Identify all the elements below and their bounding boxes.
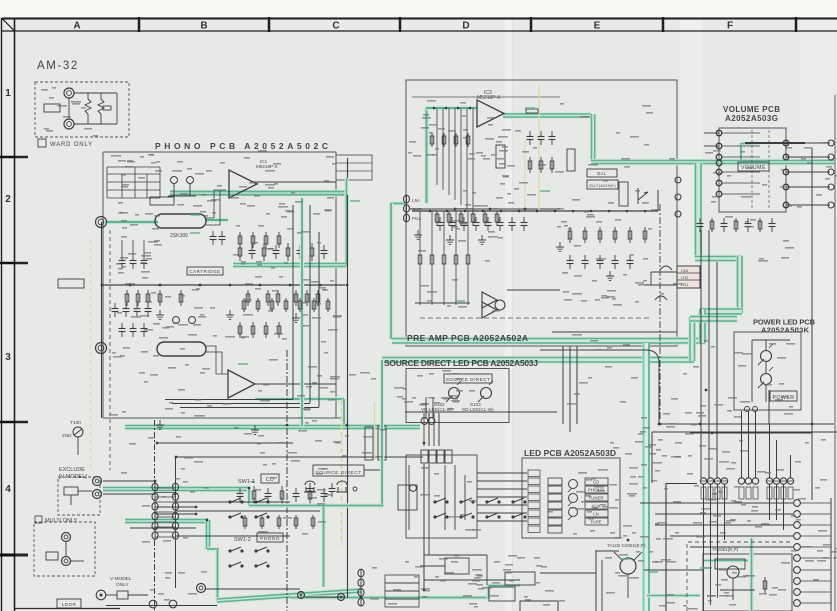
label BAL MUTE	[587, 169, 617, 177]
label C3310H	[150, 197, 174, 205]
wire green phono feedback	[233, 262, 346, 269]
wire preamp net 4	[460, 108, 462, 205]
connector right edge column	[794, 500, 801, 507]
wire green stair1 h1	[695, 255, 742, 263]
wire led feed 6	[477, 512, 527, 514]
wire green volume feed	[591, 159, 834, 166]
component header vbox 1	[365, 427, 373, 460]
volume pot symbols	[655, 266, 672, 300]
wire volume bold	[745, 142, 805, 144]
capacitor C32 phono	[267, 488, 269, 494]
wire bottom h2	[305, 596, 345, 598]
node switch pin	[353, 487, 357, 491]
wire edge conn 1	[640, 502, 793, 504]
resistor R61 preamp	[584, 227, 586, 243]
resistor row phono NF2	[238, 322, 281, 338]
resistor R25 phono	[247, 290, 249, 306]
resistor R29 phono	[306, 290, 308, 306]
capacitor pair phono mid	[210, 231, 226, 245]
border top outer line	[2, 18, 837, 20]
switch source glyph 1	[304, 481, 316, 492]
wire green phono R output	[255, 397, 344, 401]
wire CN201 left vert	[650, 272, 652, 285]
wire phono dashed edge	[109, 230, 111, 470]
switch SW2 row a	[433, 500, 436, 503]
wire preamp lower edge	[552, 331, 677, 333]
resistor R74 preamp	[747, 218, 749, 224]
label POWER LED PCB	[753, 318, 816, 335]
wire edge conn 3	[655, 524, 793, 526]
connector right edge jacks	[828, 140, 834, 146]
resistor R70 preamp	[699, 218, 701, 224]
wire preamp net 1	[442, 108, 444, 190]
column tick 6	[795, 17, 798, 32]
wire chain2 up	[175, 457, 177, 484]
component header vbox 2	[378, 426, 386, 460]
wire green sw drop 1	[247, 488, 251, 505]
wire green bottom bus 2	[290, 595, 362, 599]
connector CN preamp	[406, 195, 408, 222]
jack headphone ring	[64, 119, 74, 129]
wire edge conn 4	[670, 535, 793, 537]
component box P28	[117, 591, 128, 599]
wire bm2	[540, 572, 596, 574]
amp outer dashed box	[687, 542, 790, 611]
wire green amp area horiz	[703, 558, 748, 562]
wire amp drop 2	[710, 484, 712, 554]
wire green phono L input	[107, 220, 158, 225]
label LEDGR bottom	[57, 599, 81, 608]
wire exclude jack 1	[103, 480, 155, 482]
capacitor C61 preamp	[584, 255, 586, 261]
switch SW1-1 row a	[228, 500, 231, 503]
jack bottom 5	[169, 600, 177, 608]
wire green long vertical pair	[642, 343, 650, 611]
wire right horiz 1	[659, 423, 834, 425]
wire sw horiz 1	[157, 442, 293, 444]
wire opamp2 out	[255, 383, 336, 385]
svg-text:4: 4	[5, 484, 11, 495]
connector CN102 header	[421, 450, 428, 463]
muting caps	[307, 483, 336, 497]
resistor R54 preamp	[484, 211, 486, 225]
wire green bottom riser	[486, 585, 490, 598]
wire bundle v4	[438, 413, 440, 446]
resistor R28 phono	[295, 290, 297, 306]
wire exclude jack 2	[103, 493, 155, 495]
wire green phono L mid	[205, 218, 228, 223]
resistor R42 phono	[278, 515, 280, 529]
label input level box	[58, 279, 84, 288]
wire green volume jog top	[741, 141, 758, 145]
wire green preamp out	[503, 112, 591, 119]
jack exclude 2	[93, 490, 102, 499]
wire right elbow	[540, 350, 659, 424]
LED D104 power	[761, 351, 772, 362]
capacitor group phono R left	[119, 323, 148, 337]
LED PCB input header	[548, 478, 562, 533]
phono table header	[107, 167, 160, 174]
wire bundle down 2	[428, 464, 430, 555]
wire yellow preamp 2	[524, 140, 526, 210]
LED D103 source direct	[481, 388, 492, 399]
wire phono jack2 down	[101, 348, 103, 418]
jack bottom 2	[298, 592, 305, 599]
wire green stair2 bend	[690, 315, 737, 323]
wire right horiz 2	[690, 432, 812, 434]
wire horiz y432	[652, 431, 837, 433]
transistor pair Q1 (2SK389)	[155, 214, 206, 228]
jack multi 2	[62, 557, 71, 566]
resistor R50 preamp	[436, 211, 438, 225]
resistor group preamp left	[430, 133, 470, 147]
wire green phono right vertical	[344, 193, 348, 266]
wire green sw drop 2	[205, 520, 212, 549]
wire green drop x323	[321, 506, 325, 587]
resistor R901	[85, 99, 91, 114]
wire led feed 3	[477, 488, 527, 490]
wire green stair2 h	[382, 356, 694, 364]
resistor R65 preamp	[644, 227, 646, 243]
resistor R73 preamp	[735, 218, 737, 232]
wire bottom black	[106, 605, 217, 607]
label WARD ONLY	[38, 139, 93, 148]
capacitor C33 phono	[281, 486, 283, 504]
switch SW2 row b	[433, 515, 436, 518]
transistor star preamp	[482, 292, 505, 318]
LED PCB leds	[568, 480, 578, 521]
capacitor C15 phono	[299, 245, 301, 251]
wire green bottom stub	[488, 583, 520, 587]
connector P1 chain	[154, 483, 156, 540]
resistor row phono NF	[238, 232, 281, 248]
row tick 4	[0, 554, 28, 557]
jack P28	[96, 590, 106, 600]
wire chain cross 1	[176, 501, 290, 503]
op-amp IC3 preamp	[477, 100, 504, 127]
wire green stair1 v1	[694, 163, 703, 257]
switch SW1-2 row b	[228, 564, 231, 567]
resistor R76 preamp	[771, 218, 773, 224]
green voltage marks	[190, 107, 710, 573]
capacitor C60 preamp	[569, 255, 571, 261]
wire bm1	[420, 565, 445, 567]
connector volume left pins	[716, 130, 722, 136]
wire green sw stub 1	[249, 502, 262, 506]
wire preamp label pins	[412, 198, 422, 221]
wire below preamp verts	[563, 346, 577, 432]
wire right bus v1	[700, 230, 702, 478]
label POWER	[770, 391, 797, 401]
wire bundle v1	[423, 413, 425, 446]
jack phono L	[96, 217, 107, 228]
svg-text:C: C	[332, 21, 339, 32]
wire green stair2 v	[688, 317, 696, 361]
capacitor C34 phono	[295, 488, 297, 494]
volume dashed guides	[752, 130, 769, 210]
connector volume right pins	[783, 140, 789, 146]
wire green connector drop horiz	[391, 201, 407, 205]
muting transistor leads	[409, 465, 465, 530]
column tick 2	[268, 17, 271, 32]
column tick 3	[399, 17, 402, 32]
wire chain rungs	[155, 487, 176, 489]
wire green amp area vert	[749, 538, 753, 611]
headphone comps	[88, 93, 111, 124]
LED D105 power	[761, 374, 772, 385]
label CARTRIDGE	[187, 267, 223, 275]
wire chains dashdot up	[154, 420, 156, 484]
wire edge conn 2	[655, 513, 793, 515]
wire vert 596	[595, 550, 597, 611]
wire led feed 4	[477, 496, 527, 498]
resistor R902	[98, 99, 104, 114]
headphone wiring	[69, 93, 117, 124]
wire green preamp left vertical	[424, 108, 429, 203]
resistor R22 phono	[147, 290, 149, 306]
row tick 1	[0, 156, 28, 159]
wire preamp bus	[412, 210, 658, 212]
column tick 4	[530, 17, 533, 32]
wire phono jack link	[101, 222, 103, 348]
op-amp IC2 phono R	[228, 370, 255, 398]
wire green connector drop vert	[389, 203, 393, 339]
wire amp drop 6	[776, 484, 778, 520]
wire volume in 2	[704, 145, 719, 147]
label V MODEL ONLY	[110, 576, 132, 588]
component partial box bottom	[520, 601, 558, 611]
wire chain stub 4	[176, 535, 290, 537]
border left inner line	[14, 18, 16, 611]
capacitor C10 phono	[239, 243, 241, 261]
wire mid vert 487	[486, 555, 488, 585]
wire green sw link	[249, 503, 382, 507]
resistor R30 horizontal	[526, 109, 538, 113]
LED PCB pin column	[528, 470, 540, 533]
capacitor C11 phono	[251, 245, 253, 251]
label IC1	[256, 159, 278, 169]
wire horiz y483	[666, 483, 697, 485]
label SOURCE DIRECT switch	[313, 465, 364, 476]
wire green volume jog vertical	[739, 143, 743, 160]
wire preamp net 2	[448, 108, 450, 195]
resistor R51 preamp	[448, 211, 450, 225]
resistor R43 phono	[295, 515, 297, 529]
resistor column preamp lowleft	[418, 211, 470, 305]
multi-only dashed box	[34, 522, 95, 576]
wire green phono upper pair	[170, 190, 346, 197]
wire dashed h upper	[420, 317, 652, 319]
wire dashdot mid vertical	[659, 204, 661, 420]
wire green phono R vertical	[342, 399, 346, 427]
label headphone terminal	[44, 104, 60, 112]
wire mid horizontal	[405, 411, 557, 413]
resistor R23 phono	[159, 290, 161, 306]
connector source bottom	[421, 418, 428, 425]
FL5V terminal box	[336, 155, 372, 180]
wire green amp area bus	[647, 593, 700, 597]
capacitor C12 phono	[263, 243, 265, 261]
wire amp drop 5	[769, 484, 771, 520]
svg-text:2: 2	[5, 194, 11, 205]
wire right bus v3	[716, 262, 718, 478]
resistor block PRESET	[496, 145, 505, 168]
svg-text:B: B	[200, 21, 207, 32]
wire green stair1 h2	[700, 307, 742, 315]
label PHONO sw	[257, 533, 283, 542]
resistor R71 preamp	[711, 218, 713, 232]
wire amp h570	[644, 569, 703, 571]
amp internals	[715, 559, 767, 600]
connector CN201 box	[677, 266, 700, 288]
wire vert 666	[665, 483, 667, 611]
wire opamp1 out	[252, 181, 336, 183]
connector middle group	[738, 478, 744, 484]
pre-amp PCB outline	[406, 80, 677, 346]
page right edge line	[834, 95, 836, 611]
wire green FL5V	[344, 178, 348, 195]
jack headphone tip	[64, 88, 74, 98]
border bottom partial	[14, 608, 120, 610]
connector preamp right edge	[675, 177, 681, 183]
wire sw horiz 2	[176, 456, 423, 458]
wire right edge stubs	[800, 502, 831, 504]
LED D102 source direct	[449, 388, 460, 399]
capacitor C35 phono	[309, 486, 311, 504]
op-amp IC1 phono L	[229, 170, 257, 198]
wire right edge vert	[830, 498, 832, 611]
phono PCB outline	[103, 152, 345, 418]
wire drops middle	[742, 411, 756, 478]
wire volume out 3	[786, 171, 830, 173]
wire green preamp down	[590, 114, 597, 161]
capacitor C14 phono	[287, 243, 289, 261]
wire yellow preamp 1	[538, 85, 540, 210]
transistor TR201	[727, 566, 739, 578]
wire led feed 7	[477, 520, 527, 522]
trimmer circles phono	[168, 177, 196, 197]
wire yellow header	[374, 402, 376, 460]
transistor Q5 arrow	[638, 188, 648, 204]
resistor row phono mid	[242, 298, 330, 312]
wire bundle v2	[428, 413, 430, 446]
junctions preamp bus	[429, 210, 647, 213]
wire preamp vert right	[657, 190, 659, 211]
wire volume out 5	[786, 204, 830, 206]
svg-text:F: F	[727, 21, 733, 32]
wire amp drop 1	[703, 484, 705, 554]
resistor R63 preamp	[614, 227, 616, 243]
component 52x2 box	[489, 587, 515, 601]
wire bottom mid h	[424, 579, 520, 581]
jack bottom 1	[197, 584, 206, 593]
connector P104 row	[766, 478, 794, 484]
wire amp inner verts	[602, 554, 718, 611]
wire preamp h290	[507, 289, 560, 291]
wire center vertical	[347, 158, 349, 598]
connector CN103 header	[385, 575, 419, 607]
wire phono bus	[102, 284, 345, 286]
capacitor row below bus	[437, 217, 528, 231]
wire amp drop 4	[724, 484, 726, 540]
wire stub 596	[596, 550, 619, 552]
label S102	[421, 402, 494, 412]
wire preamp internal bus	[412, 96, 560, 98]
capacitor C17 phono	[323, 245, 325, 251]
component box bm2	[505, 572, 535, 585]
label SOURCE DIRECT inner	[444, 374, 492, 383]
label IC3	[477, 90, 501, 101]
LED PCB source labels	[585, 478, 608, 525]
svg-text:1: 1	[5, 88, 11, 99]
wire CN201 stub	[651, 271, 677, 273]
label VOLUME PCB	[723, 105, 780, 123]
label muting ic	[398, 485, 417, 510]
wire volume out 2	[786, 156, 830, 158]
resistor R26 phono	[267, 290, 269, 306]
wire green bottom bus	[217, 591, 362, 601]
resistor R60 preamp	[569, 227, 571, 243]
wire green sw feed 2	[125, 518, 208, 525]
volume wiring	[722, 132, 760, 134]
capacitor group phono left	[119, 240, 148, 269]
wire green bottom bus 3	[362, 595, 490, 599]
wire volume in 1	[704, 132, 719, 134]
capacitor C30 phono	[239, 488, 241, 494]
capacitor C31 phono	[253, 486, 255, 504]
wire green preamp top	[426, 106, 477, 111]
wire volume out 4	[786, 186, 830, 188]
wire bundle down	[423, 464, 425, 590]
label OUT MONE	[587, 180, 618, 189]
volume PCB outline	[719, 128, 786, 212]
headphone jack dashed box	[35, 82, 129, 137]
resistor R53 preamp	[472, 211, 474, 225]
transistor muting Q10	[410, 485, 417, 492]
connector pin labels	[701, 487, 706, 499]
wire green sw feed 1	[103, 486, 249, 493]
wire elbow left 1	[165, 399, 293, 401]
wire yellow dashed vertical 2	[90, 240, 92, 470]
wire oval2 to opamp2	[206, 346, 228, 374]
wire led feed 2	[477, 480, 527, 482]
wire long dashdot vertical	[286, 350, 288, 611]
wire chain cross 2	[176, 510, 320, 512]
transistor leads TR101	[614, 552, 642, 598]
wire elbow left 3	[180, 407, 319, 409]
resistor R52 preamp	[460, 211, 462, 225]
wire volume out 1	[786, 142, 830, 144]
resistor R62 preamp	[599, 227, 601, 243]
wire chain stub 2	[155, 513, 196, 515]
wire amp drop 3	[717, 484, 719, 554]
wire yellow dashed vertical	[341, 400, 343, 545]
capacitor col phono left2	[112, 303, 152, 317]
resistor R75 preamp	[759, 218, 761, 232]
wire green sw elbow	[207, 547, 219, 551]
wire vertical bundle mid	[293, 205, 319, 407]
wire bundle v3	[433, 413, 435, 446]
wire chain stub 3	[130, 527, 196, 529]
wire junctions	[101, 208, 814, 599]
svg-text:3: 3	[5, 352, 11, 363]
wire green source col	[380, 360, 384, 507]
power LED PCB outline	[734, 332, 801, 410]
jack exclude 1	[93, 477, 102, 486]
wire drops 769	[770, 424, 791, 478]
wire edge conn 5	[690, 546, 793, 548]
switch SW1-2 row a	[228, 549, 231, 552]
